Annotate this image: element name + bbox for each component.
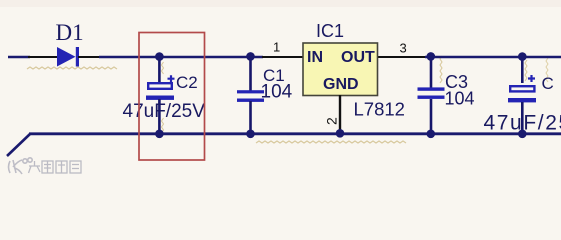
svg-text:D1: D1 xyxy=(56,20,84,45)
squiggle beside C3 lead xyxy=(440,56,442,83)
capacitor C4 (electrolytic) xyxy=(508,57,536,134)
junction top C3 xyxy=(427,52,436,61)
svg-text:2: 2 xyxy=(324,117,340,125)
wire: top net right segment xyxy=(425,56,561,58)
svg-text:C: C xyxy=(542,74,554,93)
svg-text:1: 1 xyxy=(273,40,280,55)
svg-text:GND: GND xyxy=(323,76,359,93)
svg-text:104: 104 xyxy=(445,89,475,109)
squiggle beside C2 lead lower xyxy=(162,118,164,133)
squiggle beside C2 lead upper xyxy=(162,62,164,74)
watermark logo xyxy=(9,158,33,174)
diode D1 xyxy=(57,47,79,67)
wire: IC pin 2 lead xyxy=(339,95,341,133)
junction top C1 xyxy=(246,52,255,61)
capacitor C2 (electrolytic) xyxy=(146,57,175,134)
svg-text:OUT: OUT xyxy=(341,49,375,66)
svg-text:IC1: IC1 xyxy=(316,21,344,41)
svg-text:47uF/25V: 47uF/25V xyxy=(123,101,206,122)
IC U1 L7812 xyxy=(303,43,378,96)
highlight box around C2 xyxy=(139,33,205,161)
squiggle under bottom wire xyxy=(256,141,406,143)
svg-text:C2: C2 xyxy=(176,73,198,92)
wire: top net left segment xyxy=(8,56,30,58)
svg-text:L7812: L7812 xyxy=(354,99,405,120)
junction bottom C3 xyxy=(427,130,436,139)
capacitor C3 xyxy=(418,57,445,134)
svg-text:3: 3 xyxy=(400,41,407,56)
junction bottom C1 xyxy=(246,130,255,139)
junction bottom C2 xyxy=(155,130,164,139)
junction bottom C4 xyxy=(518,130,527,139)
watermark text xyxy=(29,161,82,173)
junction bottom pin2 xyxy=(336,129,345,138)
wire: IC pin 1 lead xyxy=(262,56,303,58)
capacitor C1 xyxy=(237,57,264,134)
wire: top net middle segment xyxy=(99,56,263,58)
svg-text:IN: IN xyxy=(307,49,323,66)
junction top C4 xyxy=(518,52,527,61)
svg-text:104: 104 xyxy=(261,82,293,103)
wire: bottom net diagonal xyxy=(7,134,30,156)
wire: IC pin 3 lead xyxy=(377,56,426,58)
squiggle right of C4 plus xyxy=(546,58,548,82)
wire: bottom net horizontal xyxy=(29,132,561,135)
junction top C2 xyxy=(155,52,164,61)
wire: diode anode lead xyxy=(28,56,58,58)
squiggle beside C4 lead xyxy=(525,60,527,81)
wire: diode cathode lead xyxy=(78,56,100,58)
squiggle under diode wire xyxy=(27,67,117,69)
